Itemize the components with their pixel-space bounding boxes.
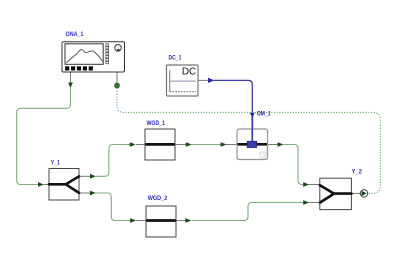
ONA_1 spectrum trace bbox=[66, 49, 102, 62]
source DC_1 body bbox=[167, 65, 199, 96]
OM_1 blue feed into electrode bbox=[251, 118, 253, 142]
wire Y_1 to WGD_2 (green) bbox=[96, 193, 131, 221]
port stub Y_1 input bbox=[44, 184, 50, 186]
port stub OM_1 input bbox=[226, 144, 238, 146]
svg-text:DC: DC bbox=[182, 66, 196, 77]
port stub WGD_2 output bbox=[176, 220, 186, 222]
arrow WGD_2 output bbox=[185, 218, 191, 223]
arrow into OM_1 input bbox=[221, 142, 227, 147]
combiner Y_2 body bbox=[320, 178, 352, 209]
DC_1 vertical axis bbox=[169, 70, 171, 92]
OM_1 corner icon bbox=[260, 152, 266, 158]
wire dotted feedback Y_2 to ONA_1 bbox=[117, 88, 380, 193]
wire Y_1 to WGD_1 (green) bbox=[96, 145, 131, 177]
arrow into Y_2 bottom input bbox=[303, 200, 309, 205]
port stub Y_1 top output bbox=[79, 175, 91, 177]
svg-text:Y_1: Y_1 bbox=[51, 159, 60, 166]
port stub WGD_1 input bbox=[136, 144, 146, 146]
wire OM_1 to Y_2 top input (green) bbox=[283, 145, 304, 185]
waveguide WGD_1 body bbox=[145, 129, 175, 160]
svg-text:Y_2: Y_2 bbox=[352, 168, 363, 175]
arrow OM_1 output bbox=[278, 142, 284, 147]
arrow WGD_1 output bbox=[186, 142, 192, 147]
port stub Y_2 bottom input bbox=[309, 202, 321, 204]
arrow into WGD_2 input bbox=[130, 218, 136, 223]
DC_1 dashed time axis bbox=[170, 91, 196, 93]
node green dot at ONA_1 right port bbox=[115, 83, 120, 88]
ONA_1 knob bbox=[115, 45, 122, 52]
arrow ONA_1 output (down) bbox=[68, 83, 73, 88]
arrow blue down into OM_1 bbox=[250, 113, 255, 119]
ONA_1 bottom buttons bbox=[65, 66, 93, 70]
arrow into Y_2 top input bbox=[303, 182, 309, 187]
arrow Y_1 bottom output bbox=[90, 191, 96, 196]
OM_1 waveguide line bbox=[238, 143, 268, 146]
port stub Y_2 output bbox=[352, 192, 361, 194]
modulator OM_1 body bbox=[237, 129, 268, 160]
Y_2 branch element bbox=[320, 185, 352, 202]
arrow into Y_1 input bbox=[38, 182, 44, 187]
port stub WGD_1 output bbox=[175, 144, 186, 146]
arrow into WGD_1 input bbox=[130, 142, 136, 147]
wire DC_1 to OM_1 (blue electrical) bbox=[214, 80, 252, 141]
port stub DC_1 output bbox=[198, 79, 208, 81]
arrow DC_1 output (blue) bbox=[208, 78, 215, 83]
node circle-triangle terminator at Y_2 output bbox=[360, 190, 367, 197]
port stub ONA_1 left bbox=[70, 72, 72, 84]
port stub WGD_2 input bbox=[136, 220, 147, 222]
svg-text:ONA_1: ONA_1 bbox=[66, 31, 84, 38]
Y_1 branch element bbox=[49, 176, 79, 193]
ONA_1 display bbox=[65, 44, 103, 65]
WGD_1 waveguide element bbox=[146, 143, 175, 146]
svg-text:DC_1: DC_1 bbox=[169, 55, 182, 62]
OM_1 electrode (blue rect) bbox=[247, 141, 256, 147]
wire blue vertical into OM_1 modulator bbox=[251, 113, 253, 142]
wire ONA_1 to Y_1 (green) bbox=[17, 88, 71, 185]
WGD_2 waveguide element bbox=[147, 219, 176, 222]
svg-text:OM_1: OM_1 bbox=[257, 111, 271, 118]
port stub ONA_1 right bbox=[116, 72, 118, 83]
instrument ONA_1 body bbox=[62, 42, 125, 72]
port stub Y_1 bottom output bbox=[79, 192, 91, 194]
svg-text:WGD_2: WGD_2 bbox=[148, 195, 168, 202]
port stub Y_2 top input bbox=[309, 184, 321, 186]
wire WGD_1 to OM_1 (green) bbox=[191, 144, 221, 146]
ONA_1 side button column bbox=[106, 44, 109, 64]
DC_1 level line bbox=[170, 80, 196, 82]
splitter Y_1 body bbox=[49, 169, 79, 201]
svg-text:WGD_1: WGD_1 bbox=[147, 120, 166, 127]
arrow Y_1 top output bbox=[90, 174, 96, 179]
port stub OM_1 output bbox=[268, 144, 279, 146]
wire WGD_2 to Y_2 bottom input (green) bbox=[192, 203, 304, 221]
waveguide WGD_2 body bbox=[146, 206, 176, 237]
